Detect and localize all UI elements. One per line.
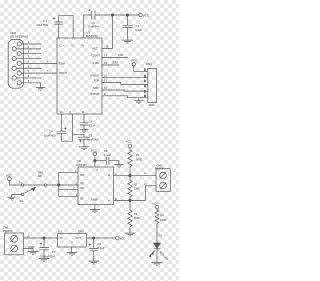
svg-text:560E: 560E: [134, 216, 140, 220]
svg-text:MAX232: MAX232: [86, 34, 98, 38]
svg-text:PWR2.5: PWR2.5: [3, 229, 14, 233]
svg-text:R2IN: R2IN: [59, 61, 65, 65]
svg-text:B: B: [145, 182, 147, 186]
svg-text:Rx: Rx: [20, 199, 24, 203]
svg-text:10uF/50V: 10uF/50V: [87, 138, 99, 142]
svg-text:14: 14: [104, 54, 107, 58]
svg-text:10: 10: [104, 86, 107, 90]
svg-text:SW1: SW1: [38, 171, 44, 175]
svg-text:R1OUT: R1OUT: [91, 74, 100, 78]
svg-text:0.1uF: 0.1uF: [135, 28, 142, 32]
svg-text:OUT: OUT: [76, 236, 82, 240]
svg-text:10uF/50V: 10uF/50V: [44, 134, 56, 138]
svg-text:C2: C2: [136, 24, 140, 28]
svg-text:VCC: VCC: [131, 59, 138, 63]
svg-text:A: A: [108, 198, 110, 202]
svg-text:R2: R2: [134, 182, 138, 186]
svg-text:GND: GND: [28, 245, 34, 249]
svg-text:C5: C5: [89, 134, 93, 138]
svg-text:C6: C6: [89, 119, 93, 123]
svg-text:7805: 7805: [78, 229, 84, 233]
svg-text:B: B: [115, 197, 117, 201]
svg-text:C4: C4: [49, 130, 53, 134]
svg-text:C3: C3: [92, 21, 96, 25]
svg-text:C1+: C1+: [60, 45, 65, 48]
svg-text:T2OUT: T2OUT: [59, 71, 68, 75]
svg-text:R4: R4: [160, 214, 164, 218]
svg-text:Tx: Tx: [19, 181, 23, 185]
svg-text:RE: RE: [80, 182, 84, 186]
svg-text:DI: DI: [80, 196, 83, 200]
svg-text:16: 16: [106, 45, 109, 49]
svg-text:G: G: [71, 241, 73, 245]
svg-text:DB-9 FEMALE: DB-9 FEMALE: [10, 34, 28, 38]
svg-text:0.1uF: 0.1uF: [98, 246, 105, 250]
svg-text:T1IN: T1IN: [94, 79, 100, 83]
svg-text:TXD: TXD: [118, 53, 123, 57]
svg-text:T1OUT: T1OUT: [91, 54, 100, 58]
svg-text:CN4: CN4: [146, 62, 152, 66]
svg-text:10uF/50V: 10uF/50V: [88, 25, 100, 29]
svg-text:VCC: VCC: [143, 13, 150, 17]
svg-text:RS485: RS485: [155, 166, 164, 170]
svg-text:IN: IN: [60, 236, 63, 240]
svg-text:VCC: VCC: [126, 140, 132, 144]
svg-text:0.1uF: 0.1uF: [89, 123, 96, 127]
svg-text:220R: 220R: [160, 218, 166, 222]
svg-text:C9: C9: [98, 242, 102, 246]
svg-text:10uF/50V: 10uF/50V: [37, 23, 49, 27]
svg-text:C1-: C1-: [71, 45, 75, 48]
svg-text:R3: R3: [134, 212, 138, 216]
svg-text:A: A: [144, 171, 146, 175]
svg-text:CN6: CN6: [3, 225, 9, 229]
svg-text:VCC: VCC: [92, 46, 98, 50]
svg-text:B: B: [108, 173, 110, 177]
svg-text:SW: SW: [38, 174, 43, 178]
svg-text:RXD: RXD: [113, 61, 119, 65]
svg-text:300E: 300E: [136, 157, 142, 161]
svg-text:U3: U3: [58, 229, 62, 233]
svg-text:VCC: VCC: [91, 149, 97, 153]
svg-text:13: 13: [104, 61, 107, 65]
svg-text:0.1uF: 0.1uF: [104, 153, 111, 157]
svg-text:VCC: VCC: [152, 201, 158, 205]
svg-text:12: 12: [104, 74, 107, 78]
svg-text:R2OUT: R2OUT: [91, 92, 100, 96]
svg-text:DE: DE: [80, 186, 84, 190]
svg-text:VCC: VCC: [6, 174, 12, 178]
svg-text:U2: U2: [78, 159, 82, 163]
svg-text:RO: RO: [80, 173, 84, 177]
svg-text:1000uF/25V: 1000uF/25V: [40, 255, 55, 259]
svg-text:15: 15: [60, 110, 63, 114]
svg-text:120E: 120E: [134, 187, 140, 191]
svg-text:GND: GND: [149, 103, 155, 107]
svg-text:A: A: [115, 172, 117, 176]
svg-text:T2IN: T2IN: [93, 86, 99, 90]
svg-text:+V: +V: [27, 234, 31, 238]
svg-text:CN1: CN1: [10, 31, 16, 35]
svg-text:C8: C8: [104, 149, 108, 153]
svg-text:VCC: VCC: [120, 237, 126, 241]
svg-text:MAX485: MAX485: [76, 163, 87, 167]
svg-text:R1: R1: [136, 153, 140, 157]
svg-text:D1: D1: [159, 233, 163, 237]
svg-text:C1: C1: [43, 19, 47, 23]
svg-text:C7: C7: [52, 250, 56, 254]
svg-text:R1IN: R1IN: [93, 61, 99, 65]
